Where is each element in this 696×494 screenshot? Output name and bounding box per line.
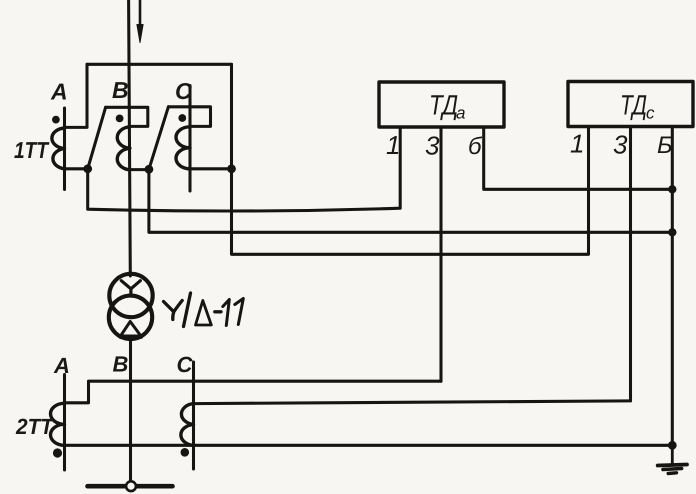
svg-text:1: 1 xyxy=(386,130,400,160)
node: 1TT-C polarity dot xyxy=(178,114,186,122)
svg-text:ТД: ТД xyxy=(429,90,458,121)
wire: bottom common bus xyxy=(65,444,673,447)
coil 1TT-A secondary xyxy=(52,128,65,169)
power transformer star winding circle xyxy=(109,274,152,317)
node: earth line junction upper xyxy=(668,185,676,193)
transformer 1TT phase C primary line xyxy=(188,86,191,192)
wire: TDa pin 6 lead to earth bus xyxy=(484,127,673,189)
wire: diagonal B finish to C start xyxy=(149,107,169,170)
neutral busbar xyxy=(88,484,173,489)
node: 2TT-C polarity dot xyxy=(181,448,190,457)
current direction arrow xyxy=(139,0,142,26)
wire: TDc pin 6 lead down (earth line) xyxy=(671,127,674,445)
wire: delta left drop to A coil xyxy=(65,64,88,127)
node: 1TT-A polarity dot xyxy=(52,116,60,124)
wire: delta right riser from C junction xyxy=(230,64,233,169)
transformer 2TT phase C primary line xyxy=(192,362,195,469)
svg-text:1ТТ: 1ТТ xyxy=(14,137,50,163)
wire: 1TT-C coil bottom to node xyxy=(190,167,232,170)
node: A tap junction xyxy=(83,164,92,173)
wire: C start hook xyxy=(168,107,210,127)
svg-text:C: C xyxy=(177,352,194,377)
node: 1TT-B polarity dot xyxy=(116,115,124,123)
svg-text:B: B xyxy=(113,352,129,377)
coil 1TT-C secondary xyxy=(176,127,190,169)
svg-text:2ТТ: 2ТТ xyxy=(15,414,54,439)
wire: phase B main vertical (lower section) xyxy=(129,339,132,481)
svg-text:Б: Б xyxy=(657,132,673,159)
wire: TDc pin 3 lead down xyxy=(629,127,632,401)
node: C tap junction xyxy=(227,164,236,173)
svg-text:б: б xyxy=(468,133,483,160)
relay box TDc xyxy=(568,82,693,127)
svg-text:1: 1 xyxy=(570,129,584,159)
svg-text:3: 3 xyxy=(613,130,628,160)
delta symbol inside bottom circle xyxy=(120,322,141,337)
node: earth line junction bottom xyxy=(668,441,677,450)
svg-text:3: 3 xyxy=(425,131,440,161)
coil 1TT-B secondary xyxy=(117,127,130,170)
transformer 1TT phase A primary line xyxy=(63,108,66,190)
relay box TDa xyxy=(379,82,504,127)
power transformer delta winding circle xyxy=(109,296,152,339)
coil 2TT-C secondary xyxy=(181,404,194,446)
wire: diagonal A finish to B start xyxy=(88,107,106,169)
wire: B start hook xyxy=(106,107,148,126)
node: 2TT-A polarity dot xyxy=(53,448,62,457)
svg-text:с: с xyxy=(646,104,655,123)
ground xyxy=(658,445,687,473)
node: B tap junction xyxy=(145,165,154,174)
svg-text:A: A xyxy=(53,353,70,378)
coil 2TT-A secondary xyxy=(51,403,65,445)
label winding group Y/D-11 xyxy=(164,293,244,327)
svg-text:B: B xyxy=(112,77,129,103)
wire: bus TDa-3 to 2TT-A coil top xyxy=(65,381,442,403)
wire: A tap down and bus to TDa pin 1 xyxy=(88,127,401,211)
wire: 1TT-B coil bottom to node xyxy=(130,168,149,171)
wire: C tap down and bus to TDc pin 1 xyxy=(232,127,589,254)
wire: 1TT-A coil bottom to node xyxy=(65,167,88,170)
wire: bus TDc-3 to 2TT-C coil top xyxy=(194,401,631,404)
star symbol inside top circle xyxy=(121,281,140,296)
wire: phase B main vertical (upper section) xyxy=(129,0,131,276)
svg-text:C: C xyxy=(175,78,192,104)
neutral point circle xyxy=(126,481,136,491)
wire: delta top link (C finish to A start) xyxy=(87,63,232,66)
svg-text:ТД: ТД xyxy=(620,90,647,121)
svg-text:а: а xyxy=(456,104,465,123)
wire: TDa pin 3 lead down xyxy=(439,127,442,381)
wire: B tap down and bus to earth line xyxy=(149,169,672,232)
node: earth line junction middle xyxy=(668,228,676,236)
svg-text:A: A xyxy=(50,79,68,105)
transformer 2TT phase A primary line xyxy=(63,375,66,471)
